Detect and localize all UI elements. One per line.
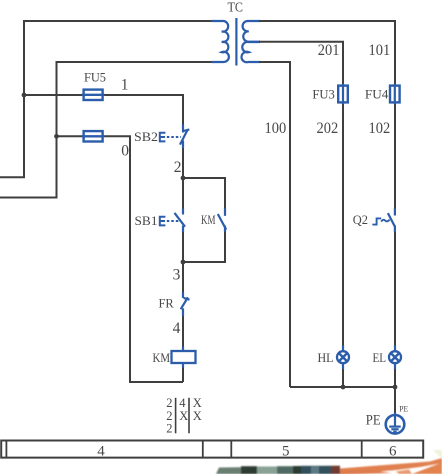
title block right edge xyxy=(422,440,424,459)
lamp HL xyxy=(337,345,349,370)
wire secondary tap to 201 column xyxy=(259,42,343,346)
svg-text:SB1: SB1 xyxy=(135,213,158,228)
wire lamp return row xyxy=(290,386,395,388)
transformer TC secondary winding lower xyxy=(242,42,260,62)
svg-text:5: 5 xyxy=(282,444,290,460)
contactor coil KM xyxy=(182,347,184,352)
svg-text:101: 101 xyxy=(369,42,391,59)
wire control column segment FR-KM coil xyxy=(182,316,184,352)
svg-text:102: 102 xyxy=(369,120,391,137)
svg-text:FU4: FU4 xyxy=(365,87,389,102)
svg-text:FU5: FU5 xyxy=(84,70,106,85)
wire KM aux branch top xyxy=(183,178,225,209)
svg-text:4: 4 xyxy=(179,396,186,410)
wire node-1 row (FU5 row) and control column top xyxy=(24,95,183,126)
wire left lower loop to TC primary bottom xyxy=(0,62,212,198)
junction HL return xyxy=(341,385,346,390)
svg-text:FU3: FU3 xyxy=(312,87,334,102)
wire control column segment SB1-FR xyxy=(182,232,184,294)
svg-text:2: 2 xyxy=(166,396,172,410)
KM contact cross-reference table xyxy=(166,396,202,436)
svg-text:SB2: SB2 xyxy=(134,129,158,144)
svg-text:2: 2 xyxy=(174,159,182,176)
title block divider c xyxy=(230,441,232,458)
wire secondary bottom to 100 column xyxy=(259,62,290,387)
svg-text:4: 4 xyxy=(173,320,181,337)
wire KM coil to bottom xyxy=(182,363,184,382)
svg-text:X: X xyxy=(179,409,188,423)
wire PE drop xyxy=(394,387,396,414)
pushbutton SB2 (NC contact) xyxy=(180,125,189,149)
contactor aux contact KM (NO) xyxy=(218,208,226,232)
svg-text:TC: TC xyxy=(228,0,244,15)
node junction on upper loop xyxy=(22,93,27,98)
pushbutton SB1 (NO contact) xyxy=(175,209,186,233)
switch Q2 contact xyxy=(388,208,395,232)
KM table divider 1 xyxy=(175,398,177,434)
wire HL to return row xyxy=(342,369,344,387)
svg-text:0: 0 xyxy=(121,143,129,160)
node 3 junction xyxy=(181,260,186,265)
node 2 junction xyxy=(181,176,186,181)
title block divider d xyxy=(361,441,363,458)
title block left edge xyxy=(0,440,2,459)
transformer TC core xyxy=(235,18,237,66)
svg-text:KM: KM xyxy=(201,212,216,227)
svg-text:4: 4 xyxy=(97,444,105,460)
svg-text:201: 201 xyxy=(318,42,340,59)
junction EL return xyxy=(393,385,398,390)
svg-text:HL: HL xyxy=(318,350,334,365)
pushbutton SB2 actuator E and link xyxy=(159,133,181,142)
svg-text:PE: PE xyxy=(399,404,408,414)
wire node-0 row (second fuse row) and return path xyxy=(57,136,184,382)
svg-text:X: X xyxy=(193,409,202,423)
title block divider a xyxy=(5,441,7,458)
title block bottom line xyxy=(1,457,424,459)
svg-text:1: 1 xyxy=(121,77,129,94)
svg-text:3: 3 xyxy=(173,266,181,283)
wire left upper loop to TC primary top xyxy=(0,21,212,177)
lamp EL xyxy=(389,345,401,370)
fuse FU5 xyxy=(82,90,105,100)
ground symbol PE xyxy=(386,413,405,434)
svg-text:KM: KM xyxy=(153,350,171,365)
svg-text:EL: EL xyxy=(373,350,387,365)
svg-text:Q2: Q2 xyxy=(353,212,368,227)
wire control column segment SB2-SB1 xyxy=(182,148,184,210)
svg-text:FR: FR xyxy=(159,296,175,311)
svg-text:100: 100 xyxy=(265,120,287,137)
svg-text:X: X xyxy=(193,396,202,410)
title block divider b xyxy=(202,441,204,458)
svg-text:PE: PE xyxy=(366,412,381,428)
switch Q2 manual actuator xyxy=(372,218,389,224)
wire KM aux branch bottom xyxy=(183,232,225,263)
wire 102 column Q2 to EL xyxy=(394,232,396,346)
pushbutton SB1 actuator E and link xyxy=(159,217,179,226)
title block top line xyxy=(1,440,424,442)
wire EL to return row xyxy=(394,369,396,387)
wire secondary top to 101 column xyxy=(259,21,395,210)
svg-text:6: 6 xyxy=(389,444,397,460)
transformer TC primary winding xyxy=(212,21,229,62)
node junction on lower loop xyxy=(54,134,59,139)
KM table divider 2 xyxy=(188,398,190,434)
thermal relay contact FR (NC) xyxy=(181,292,190,316)
transformer TC secondary winding upper xyxy=(243,21,260,42)
fuse FU3 xyxy=(338,84,348,104)
fuse FU4 xyxy=(390,84,400,104)
svg-text:202: 202 xyxy=(317,120,339,137)
fuse FU6 (unlabeled) xyxy=(82,131,105,141)
svg-text:2: 2 xyxy=(166,422,172,436)
